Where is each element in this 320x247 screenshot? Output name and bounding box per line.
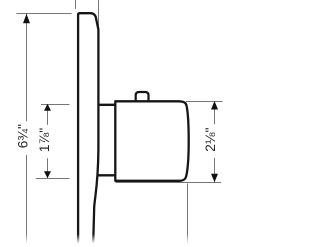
svg-text:2⅛": 2⅛": [202, 127, 218, 151]
svg-text:1⅞": 1⅞": [36, 128, 52, 152]
svg-text:6¾": 6¾": [14, 124, 30, 148]
